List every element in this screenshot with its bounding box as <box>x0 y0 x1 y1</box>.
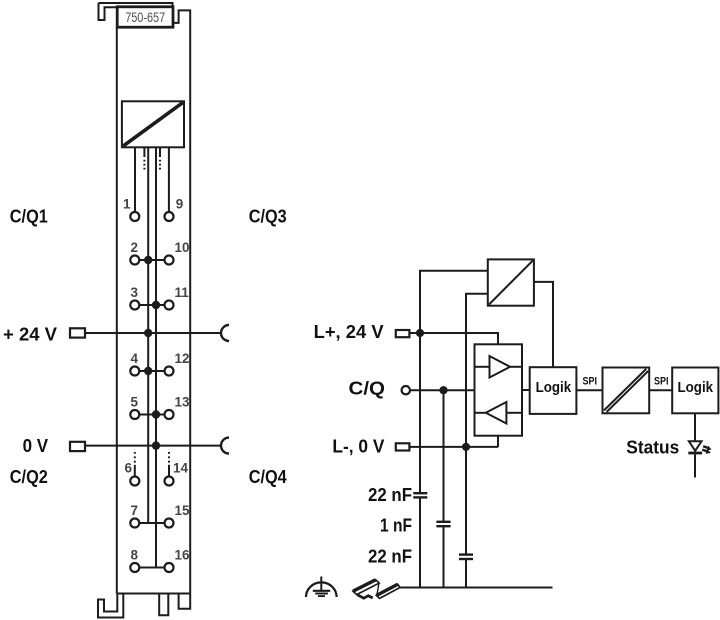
svg-text:3: 3 <box>131 285 139 300</box>
wire L+ to driver <box>410 333 499 344</box>
terminal square L- 0V <box>396 443 410 450</box>
svg-text:1: 1 <box>123 197 131 212</box>
dashed stub pin 14 <box>168 452 170 463</box>
pin 9 <box>165 212 174 221</box>
wire LED stub <box>694 454 696 477</box>
pin 7 <box>130 519 139 528</box>
buffer amp (rx) <box>475 402 523 424</box>
node L+ junction dot <box>416 329 424 337</box>
terminal circle C/Q <box>402 386 410 394</box>
svg-text:C/Q2: C/Q2 <box>10 466 48 487</box>
wire pins 3-11 <box>139 304 164 306</box>
svg-text:0 V: 0 V <box>23 435 49 456</box>
wire pins 2-10 <box>139 259 164 261</box>
dc/dc converter U1 (module) <box>122 101 184 147</box>
dc/dc converter U2 <box>488 259 534 305</box>
svg-text:750-657: 750-657 <box>125 9 165 25</box>
wire 0V <box>85 445 221 447</box>
svg-text:+ 24 V: + 24 V <box>3 323 58 344</box>
terminal square L+ 24V <box>396 330 410 337</box>
module right tab <box>179 594 191 609</box>
wire U1 to pin 9 <box>168 147 170 212</box>
internal dashed stub left <box>143 147 145 157</box>
wire L+ cap branch <box>419 333 421 493</box>
pin 11 <box>165 301 174 310</box>
pin 8 <box>130 563 139 572</box>
wire isolator to Logik2 <box>649 389 672 391</box>
wire L+ riser to converter <box>420 271 488 333</box>
wire C/Q to driver <box>410 389 475 391</box>
power jumper contact arc +24V <box>221 325 229 341</box>
pin 14 <box>165 477 174 486</box>
dashed stub pin 6 <box>134 452 136 463</box>
wire Logik2 to LED <box>694 413 696 441</box>
svg-text:22 nF: 22 nF <box>368 547 412 567</box>
junction dot row 5 <box>152 410 160 418</box>
pin 6 <box>130 477 139 486</box>
svg-text:15: 15 <box>175 503 191 518</box>
svg-text:SPI: SPI <box>583 376 598 388</box>
wire pins 8-16 <box>139 567 164 569</box>
pin 5 <box>130 410 139 419</box>
capacitor C3 22nF <box>459 555 473 559</box>
capacitor C1 22nF <box>413 493 427 497</box>
svg-text:SPI: SPI <box>654 376 669 388</box>
svg-text:C/Q3: C/Q3 <box>249 206 287 227</box>
DIN rail symbol <box>353 580 400 599</box>
LED emission arrows <box>702 446 711 454</box>
pin 16 <box>165 563 174 572</box>
wire driver to Logik1 <box>522 389 530 391</box>
module left foot <box>98 594 123 618</box>
logic block Logik1 <box>530 367 577 414</box>
svg-text:Status: Status <box>626 437 679 458</box>
svg-text:5: 5 <box>131 395 139 410</box>
svg-text:10: 10 <box>175 240 190 255</box>
label box 750-657 <box>117 7 173 27</box>
svg-text:16: 16 <box>175 548 191 563</box>
svg-text:11: 11 <box>175 285 190 300</box>
svg-text:C/Q4: C/Q4 <box>249 466 288 487</box>
svg-text:9: 9 <box>176 197 184 212</box>
wire driver bottom to L- <box>497 436 499 447</box>
node C/Q junction dot <box>439 386 447 394</box>
svg-text:Logik: Logik <box>678 380 714 396</box>
junction dot 0V bus <box>152 441 160 449</box>
pin 12 <box>165 367 174 376</box>
svg-text:1 nF: 1 nF <box>380 516 412 536</box>
svg-text:13: 13 <box>175 395 191 410</box>
internal dashed stub right <box>159 147 161 157</box>
module body outline <box>99 3 191 594</box>
wire +24V <box>85 332 221 334</box>
wire C3 to ground rail <box>465 559 467 588</box>
isolator U4 (double diagonal) <box>603 368 650 414</box>
wire pins 5-13 <box>139 414 164 416</box>
capacitor C2 1nF <box>436 522 450 526</box>
wire Logik1 to isolator <box>576 389 602 391</box>
pin 1 <box>130 212 139 221</box>
svg-text:L+, 24 V: L+, 24 V <box>314 321 385 342</box>
junction dot row 3 <box>152 301 160 309</box>
node L- junction dot <box>462 443 470 451</box>
bus wire 24V (left) <box>147 147 149 523</box>
bus wire 0V (right) <box>155 147 157 567</box>
svg-text:6: 6 <box>124 461 132 476</box>
wire pins 7-15 <box>139 522 164 524</box>
pin 3 <box>130 301 139 310</box>
logic block Logik2 <box>672 368 718 414</box>
terminal square 0V <box>70 442 85 451</box>
pin 4 <box>130 367 139 376</box>
wire C2 to ground rail <box>443 526 445 587</box>
pin 13 <box>165 410 174 419</box>
module middle tab <box>159 594 168 616</box>
wire pins 4-12 <box>139 370 164 372</box>
driver block U3 <box>475 344 523 435</box>
junction dot row 4 <box>144 367 152 375</box>
pin 10 <box>165 256 174 265</box>
junction dot +24V bus <box>144 329 152 337</box>
svg-text:8: 8 <box>131 548 139 563</box>
svg-text:4: 4 <box>131 351 139 366</box>
earth ground symbol <box>306 577 337 598</box>
svg-text:C/Q: C/Q <box>349 378 386 399</box>
svg-text:2: 2 <box>131 240 139 255</box>
wire L- to driver <box>409 446 498 448</box>
svg-text:C/Q1: C/Q1 <box>10 206 48 227</box>
terminal square +24V <box>70 328 85 337</box>
svg-text:7: 7 <box>131 503 139 518</box>
svg-text:14: 14 <box>173 461 189 476</box>
wire C1 to ground rail <box>419 497 421 587</box>
LED D1 <box>688 441 702 453</box>
power jumper contact arc 0V <box>221 438 229 454</box>
wire L- cap branch <box>465 447 467 555</box>
junction dot row 2 <box>144 256 152 264</box>
svg-text:22 nF: 22 nF <box>368 485 412 505</box>
wire U1 to pin 1 <box>134 147 136 212</box>
wire U2 to Logik <box>534 282 553 367</box>
wire C/Q cap branch <box>443 390 445 522</box>
pin 15 <box>165 519 174 528</box>
svg-text:L-, 0 V: L-, 0 V <box>332 435 385 456</box>
wire L- riser to converter <box>466 294 488 447</box>
svg-text:12: 12 <box>175 351 190 366</box>
buffer amp (tx) <box>475 356 523 378</box>
pin 2 <box>130 256 139 265</box>
svg-text:Logik: Logik <box>536 380 572 396</box>
ground rail wire <box>390 587 553 589</box>
